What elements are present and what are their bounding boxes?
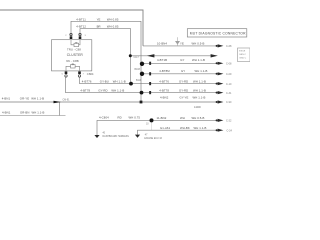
junction dot node V2-R1: [140, 62, 144, 66]
svg-text:4-BT1BGYWH 1.1-B: 4-BT1BGYWH 1.1-B: [157, 58, 205, 62]
cluster internal component top: [71, 40, 80, 47]
inline connector pins row R2: [149, 72, 151, 75]
svg-text:TRU - C88: TRU - C88: [67, 47, 81, 51]
svg-text:C-31: C-31: [226, 92, 232, 95]
svg-text:C-68: C-68: [226, 45, 232, 48]
cluster pin 6 bottom-left connector: [65, 71, 68, 77]
svg-text:MUT DIAGNOSTIC CONNECTOR: MUT DIAGNOSTIC CONNECTOR: [190, 32, 246, 36]
inline connector CM-91 on L1: [54, 101, 62, 103]
svg-text:C804: C804: [87, 72, 94, 76]
wire row R1: [142, 62, 218, 64]
svg-text:10-BN4YEWH 0.5-B: 10-BN4YEWH 0.5-B: [157, 41, 204, 45]
connector arrow right row Rb: [211, 54, 218, 57]
wire stub MUT connector: [177, 37, 179, 46]
svg-text:CM-91: CM-91: [63, 99, 71, 101]
wire row R3 from cluster pin 6: [80, 78, 218, 84]
svg-text:4-BT76GY-RDWH 1.1-B: 4-BT76GY-RDWH 1.1-B: [159, 80, 206, 84]
wire B 4-BT12: [80, 29, 131, 84]
connector arrow row R1: [216, 62, 224, 65]
svg-text:B110: B110: [136, 80, 142, 82]
junction dot node V1-R3: [129, 82, 133, 86]
connector arrow row R4: [216, 91, 224, 94]
svg-text:C-24: C-24: [227, 129, 233, 132]
cluster U1 box: [52, 40, 92, 71]
wire L2 4-BN1: [0, 115, 66, 117]
cluster pin 2 top-left connector: [70, 33, 73, 39]
svg-text:DASHBOARD HARNESS: DASHBOARD HARNESS: [103, 135, 130, 138]
junction dot node V2-R4: [140, 91, 144, 95]
ground no.1 dashboard earth: [94, 135, 99, 138]
cluster pin 3 top-right connector: [79, 33, 82, 39]
svg-text:4-BT8MGYWH 1.1-B: 4-BT8MGYWH 1.1-B: [159, 69, 207, 73]
ground no.2 label: [144, 135, 162, 140]
inline connector pins row R1: [149, 62, 151, 65]
wire row Ra to C-68: [143, 45, 218, 47]
svg-text:C117: C117: [134, 57, 140, 59]
ground no.1 label: [103, 133, 130, 138]
junction pin square L1-V2: [140, 101, 143, 104]
svg-text:4-BT76GY-BUWH 1.1-B: 4-BT76GY-BUWH 1.1-B: [82, 80, 126, 84]
svg-text:66 - C88: 66 - C88: [66, 59, 79, 63]
svg-text:CLUSTER: CLUSTER: [67, 53, 84, 57]
cluster pin 7 bottom-right connector: [78, 71, 81, 77]
inline connector pins row R3: [149, 82, 151, 85]
connector arrow row R2: [216, 72, 224, 75]
MUT diagnostic connector box: [187, 29, 247, 37]
arrow down to row Ra: [175, 41, 180, 45]
svg-text:C-10: C-10: [226, 83, 232, 86]
junction dot node V2-R2: [140, 72, 144, 76]
connector arrow row Ra: [216, 44, 224, 47]
junction dot node V1-Rb: [129, 54, 132, 57]
connector arrow left row Rb: [147, 54, 155, 57]
svg-text:ENGINE ECU 16: ENGINE ECU 16: [144, 138, 162, 140]
svg-text:GSD C: GSD C: [239, 58, 246, 60]
wire A 4-BT11: [71, 21, 141, 101]
svg-text:C-22: C-22: [226, 120, 232, 123]
note box right: [238, 48, 251, 62]
svg-text:4-BN1OR-BNWH 1.1-B: 4-BN1OR-BNWH 1.1-B: [2, 110, 44, 114]
svg-text:C-08: C-08: [226, 63, 232, 66]
wire G2 G1-A61 ground: [138, 130, 218, 135]
junction dot node G1: [150, 118, 154, 122]
svg-text:B108: B108: [135, 69, 141, 71]
connector arrow row L1: [216, 100, 224, 103]
wire row R2: [142, 73, 218, 75]
svg-text:C-90: C-90: [226, 101, 232, 104]
wire G1 diagnosis ground: [97, 120, 218, 135]
wire row R4 from cluster pin 7: [66, 78, 218, 93]
connector arrow row G2: [216, 129, 224, 132]
svg-text:C-09: C-09: [226, 73, 232, 76]
svg-text:4-BT78GY-RDWH 1.1-B: 4-BT78GY-RDWH 1.1-B: [159, 88, 206, 92]
svg-text:4-BT78GY-RDWH 1.1-B: 4-BT78GY-RDWH 1.1-B: [80, 89, 124, 93]
connector arrow row G1: [216, 119, 224, 122]
svg-text:4-BN1OR-YEWH 1.1-B: 4-BN1OR-YEWH 1.1-B: [2, 96, 44, 100]
wire bus top: [0, 10, 143, 46]
cluster internal component bottom: [66, 64, 80, 71]
svg-text:11-BN2WHWH 0.5-B: 11-BN2WHWH 0.5-B: [157, 116, 205, 120]
svg-text:14400: 14400: [194, 106, 201, 109]
svg-text:EXCE: EXCE: [239, 50, 245, 52]
wire junction dot drop: [151, 120, 153, 130]
svg-text:4-C804RDWH 0.75: 4-C804RDWH 0.75: [99, 116, 140, 120]
ground no.2 engine earth: [135, 135, 140, 138]
wire L1 4-BN2: [0, 101, 218, 103]
svg-text:4-BN2GY-YEWH 1.1-B: 4-BN2GY-YEWH 1.1-B: [160, 96, 205, 100]
svg-text:SRS C: SRS C: [239, 54, 246, 56]
connector arrow row R3: [216, 82, 224, 85]
wire row Rb double arrow: [131, 55, 213, 57]
inline connector pins row R4: [149, 91, 151, 94]
svg-text:G1-A61WH-BKWH 1.1-B: G1-A61WH-BKWH 1.1-B: [160, 126, 206, 130]
svg-text:4-BT11YEWH 0.85: 4-BT11YEWH 0.85: [76, 17, 119, 21]
svg-text:4-BT12BRWH 0.85: 4-BT12BRWH 0.85: [76, 25, 119, 29]
